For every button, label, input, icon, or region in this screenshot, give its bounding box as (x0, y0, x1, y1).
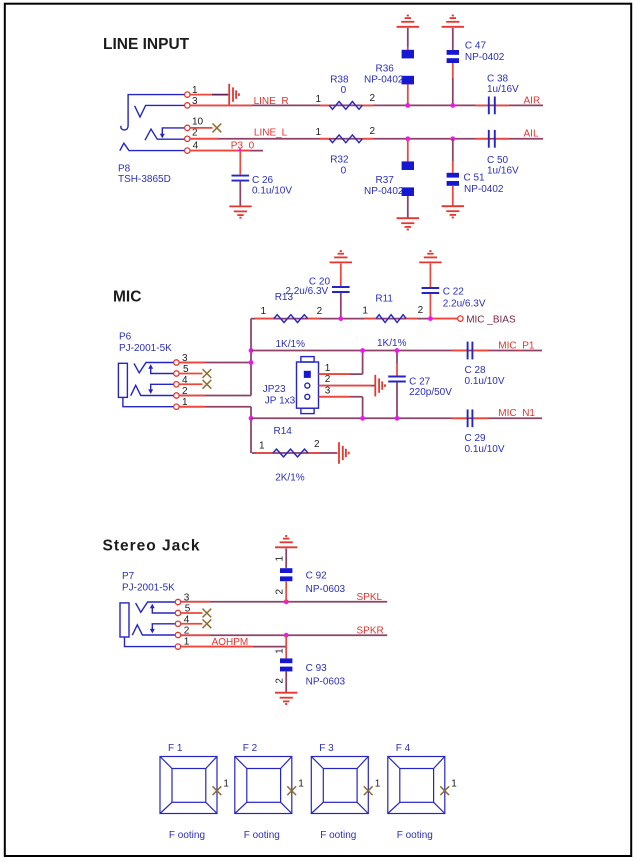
wire net MIC bias (251, 318, 458, 320)
pin number 10 of P8 (192, 117, 204, 128)
footing F2 symbol (235, 757, 292, 814)
svg-text:2: 2 (370, 126, 376, 137)
svg-text:4: 4 (193, 140, 199, 151)
refdes R32 (330, 154, 349, 165)
connector P8 pin 1 terminal (185, 92, 190, 97)
net label AIR (524, 96, 541, 107)
svg-text:2: 2 (418, 305, 424, 316)
value NP-0402 of C51 (464, 184, 504, 195)
pin number 2 of R38 (370, 93, 376, 104)
value NP-0603 of C93 (306, 676, 346, 687)
junction MIC_N1 at left vertical (249, 416, 254, 421)
svg-text:2: 2 (317, 306, 323, 317)
svg-text:JP23: JP23 (263, 384, 286, 395)
refdes C26 (252, 175, 274, 186)
refdes R14 (274, 426, 293, 437)
resistor R38 (329, 102, 362, 110)
junction R37/LINE_L (405, 136, 410, 141)
capacitor C47 (NP, filled bars) (447, 50, 459, 63)
value 2K/1% of R14 (275, 473, 305, 484)
svg-text:NP-0402: NP-0402 (465, 52, 505, 63)
value 0.1u/10V of C29 (465, 444, 505, 455)
terminal circle MIC_BIAS (458, 316, 463, 321)
wire net R14 line (252, 452, 338, 454)
connector P7 switch arm (pin 4) (150, 624, 176, 634)
power label P3_0 (231, 141, 255, 152)
pin number 1 of footing F2 (298, 778, 304, 789)
pin number 1 of footing F3 (375, 778, 381, 789)
wire LINE_L to C51 (452, 139, 454, 173)
wire ground to C20 (340, 264, 342, 287)
pin number 1 of R14 (259, 440, 265, 451)
refdes C20 (309, 276, 331, 287)
wire P6 pin5 stub (179, 373, 202, 375)
junction R36/LINE_R (405, 103, 410, 108)
value 0.1u/10V of C28 (465, 376, 505, 387)
resistor R13 (274, 315, 308, 323)
ground below C93 (275, 693, 297, 704)
junction C27/MIC_P1 (395, 348, 400, 353)
svg-text:1u/16V: 1u/16V (487, 84, 519, 95)
svg-text:C 29: C 29 (465, 433, 487, 444)
capacitor C28 (468, 342, 473, 360)
svg-text:P3_0: P3_0 (231, 141, 255, 152)
svg-text:R38: R38 (330, 75, 349, 86)
svg-text:R37: R37 (376, 175, 395, 186)
junction C47/LINE_R (450, 103, 455, 108)
connector JP23 body (297, 357, 319, 414)
svg-text:F 3: F 3 (319, 743, 334, 754)
svg-text:2K/1%: 2K/1% (275, 473, 305, 484)
no-connect X at P6 pin 5 (203, 369, 212, 378)
svg-text:1K/1%: 1K/1% (276, 339, 306, 350)
label Footing of F3 (320, 830, 356, 841)
junction JP23 pin1/MIC_P1 (360, 348, 365, 353)
connector P8 switch arm (pin 10) (160, 128, 185, 138)
svg-text:NP-0402: NP-0402 (364, 186, 404, 197)
svg-text:F ooting: F ooting (244, 830, 280, 841)
value PJ-2001-5K of P6 (119, 343, 172, 354)
connector JP23 pin1 square (304, 371, 311, 378)
connector P8 ring contact (pin 2) (145, 129, 185, 140)
svg-text:F ooting: F ooting (320, 830, 356, 841)
net label MIC_BIAS (466, 314, 516, 325)
svg-text:1K/1%: 1K/1% (377, 338, 407, 349)
ground above C20 (330, 251, 352, 262)
svg-text:1: 1 (316, 94, 322, 105)
wire net MIC_N1 (251, 417, 542, 419)
wire SPKR to C93 (285, 635, 287, 658)
svg-text:C 27: C 27 (409, 377, 431, 388)
svg-text:1: 1 (298, 778, 304, 789)
refdes C27 (409, 377, 431, 388)
pin number 3 of P7 (184, 593, 190, 604)
svg-text:F 4: F 4 (396, 743, 411, 754)
svg-text:P8: P8 (118, 163, 131, 174)
connector P7 jack body (120, 603, 129, 637)
label Footing of F1 (169, 830, 205, 841)
connector P6 pin 5 terminal (174, 371, 179, 376)
wire C22 to bias line (429, 294, 431, 319)
value 0 of R32 (341, 165, 347, 176)
value NP-0402 of R36 (364, 75, 404, 86)
net label MIC_P1 (498, 340, 535, 351)
refdes F2 (243, 743, 258, 754)
svg-text:C 93: C 93 (306, 663, 328, 674)
ground above C22 (419, 251, 441, 262)
net label AOHPM (212, 637, 249, 648)
pin number 5 of P7 (185, 604, 191, 615)
svg-text:C 38: C 38 (487, 74, 509, 85)
refdes JP23 (263, 384, 286, 395)
no-connect X at footing F2 pin 1 (287, 786, 296, 795)
pin number 2 of C93 (rotated) (274, 678, 285, 684)
resistor R32 (329, 135, 362, 143)
connector P8 pin 4 terminal (185, 148, 190, 153)
svg-text:C 50: C 50 (487, 155, 509, 166)
pin number 4 of P8 (193, 140, 199, 151)
resistor R14 (273, 449, 308, 457)
svg-text:2: 2 (274, 678, 285, 684)
wire net AOHPM (181, 646, 287, 648)
refdes C38 (487, 74, 509, 85)
pin number 1 of R32 (316, 127, 322, 138)
connector P7 pin 1 terminal (175, 644, 180, 649)
resistor R11 (376, 315, 406, 323)
svg-text:LINE INPUT: LINE INPUT (103, 36, 190, 53)
junction P6 pin3 at left vertical (249, 360, 254, 365)
svg-text:NP-0603: NP-0603 (306, 676, 346, 687)
wire ground to C22 (429, 264, 431, 288)
pin number 2 of JP23 (325, 374, 331, 385)
svg-text:R36: R36 (376, 63, 395, 74)
junction C27/MIC_N1 (395, 416, 400, 421)
ground below R37 (397, 218, 419, 229)
capacitor C27 (388, 377, 406, 382)
junction C22/bias (428, 316, 433, 321)
junction C92/SPKL (284, 599, 289, 604)
connector P7 switch arm (pin 5) (150, 604, 176, 613)
value 2.2u/6.3V of C22 (443, 298, 486, 309)
pin number 3 of JP23 (325, 385, 331, 396)
junction C51/LINE_L (450, 136, 455, 141)
svg-text:3: 3 (325, 385, 331, 396)
footing F1 symbol (160, 757, 217, 814)
svg-text:1u/16V: 1u/16V (487, 165, 519, 176)
connector P6 sleeve (pin 1) (123, 397, 174, 406)
refdes C93 (306, 663, 328, 674)
svg-text:F ooting: F ooting (397, 830, 433, 841)
svg-text:Stereo Jack: Stereo Jack (103, 538, 201, 555)
svg-text:NP-0402: NP-0402 (464, 184, 504, 195)
svg-text:R32: R32 (330, 154, 349, 165)
svg-text:2: 2 (192, 128, 198, 139)
wire net SPKL (181, 601, 388, 603)
refdes P6 (119, 332, 132, 343)
ground below C51 (442, 206, 464, 217)
svg-text:AOHPM: AOHPM (212, 637, 249, 648)
section title MIC (113, 289, 141, 306)
value JP 1x3 (265, 395, 296, 406)
wire P7 pin5 stub (181, 612, 203, 614)
connector P8 pin 2 terminal (185, 136, 190, 141)
refdes C29 (465, 433, 487, 444)
refdes C22 (443, 286, 465, 297)
wire R36 to LINE_R (407, 84, 409, 105)
refdes R36 (376, 63, 395, 74)
connector P8 tip contact (pin 3) (135, 105, 185, 117)
junction C93/SPKR (284, 633, 289, 638)
net label MIC_N1 (498, 408, 535, 419)
svg-text:MIC_N1: MIC_N1 (498, 408, 535, 419)
svg-text:F 2: F 2 (243, 743, 258, 754)
svg-text:2: 2 (274, 589, 285, 595)
connector P6 pin 3 terminal (174, 360, 179, 365)
svg-text:1: 1 (362, 306, 368, 317)
no-connect X at P7 pin 5 (203, 609, 212, 618)
wire MIC_P1 to C27 (396, 351, 398, 376)
refdes C28 (465, 365, 487, 376)
svg-text:0.1u/10V: 0.1u/10V (465, 376, 505, 387)
capacitor C93 (NP, filled bars) (280, 658, 292, 671)
value NP-0402 of R37 (364, 186, 404, 197)
wire P8 pin4 / net P3_0 (190, 150, 263, 152)
pin number 2 of R14 (314, 439, 320, 450)
ground above C92 (275, 536, 297, 547)
pin number 1 of P8 (192, 85, 198, 96)
ground at P8 pin 1 (sideways) (229, 84, 239, 106)
wire C51 to ground (452, 186, 454, 206)
pin number 1 of footing F1 (223, 778, 229, 789)
wire JP23 pin1 to MIC_P1 (319, 351, 363, 375)
connector P7 pin 3 terminal (175, 599, 180, 604)
connector P7 sleeve (pin 1) (125, 637, 176, 647)
wire C92 to SPKL (285, 581, 287, 601)
svg-text:PJ-2001-5K: PJ-2001-5K (122, 583, 175, 594)
connector P7 pin 2 terminal (175, 632, 180, 637)
refdes C92 (306, 571, 328, 582)
pin number 2 of P6 (182, 386, 188, 397)
connector P6 tip contact (pin 3) (134, 363, 174, 373)
svg-text:1: 1 (451, 778, 457, 789)
svg-text:C 22: C 22 (443, 286, 465, 297)
pin number 1 of C92 (rotated) (274, 556, 285, 562)
value TSH-3865D (118, 174, 171, 185)
junction MIC_P1 at left vertical (249, 348, 254, 353)
no-connect X at footing F4 pin 1 (440, 786, 449, 795)
pin number 4 of P6 (182, 375, 188, 386)
junction C20/bias (338, 316, 343, 321)
pin number 5 of P6 (183, 364, 189, 375)
ground above R36 (397, 16, 419, 27)
power port P3_0 arrow (238, 148, 243, 152)
pin number 1 of R38 (316, 94, 322, 105)
connector P8 pin 3 terminal (185, 103, 190, 108)
connector P6 pin 2 terminal (174, 393, 179, 398)
wire C20 to bias line (340, 293, 342, 319)
value 1K/1% of R13 (276, 339, 306, 350)
pin number 2 of R13 (317, 306, 323, 317)
svg-text:F ooting: F ooting (169, 830, 205, 841)
value 1u/16V of C50 (487, 165, 519, 176)
wire P8 pin10 stub (190, 127, 213, 129)
value 220p/50V of C27 (409, 387, 452, 398)
svg-text:0.1u/10V: 0.1u/10V (465, 444, 505, 455)
pin number 2 of R11 (418, 305, 424, 316)
svg-text:0: 0 (341, 85, 347, 96)
svg-text:MIC: MIC (113, 289, 141, 306)
wire P6 pin1 to node (179, 406, 251, 408)
svg-text:LINE_R: LINE_R (254, 96, 289, 107)
capacitor C29 (468, 409, 473, 427)
svg-text:C 26: C 26 (252, 175, 274, 186)
wire net LINE_L (190, 138, 543, 140)
svg-text:TSH-3865D: TSH-3865D (118, 174, 171, 185)
connector P6 pin 4 terminal (174, 382, 179, 387)
footing F4 symbol (388, 757, 445, 814)
connector P7 ring contact (pin 2) (132, 625, 175, 635)
value PJ-2001-5K of P7 (122, 583, 175, 594)
wire P6 pin4 stub (179, 383, 202, 385)
svg-text:C 28: C 28 (465, 365, 487, 376)
ground above C47 (442, 16, 464, 27)
wire JP23 pin2 to ground (319, 385, 375, 387)
ground below C26 (229, 206, 251, 217)
value 0 of R38 (341, 85, 347, 96)
svg-text:AIR: AIR (524, 96, 541, 107)
connector JP23 pin3 circle (305, 394, 310, 399)
wire net SPKR (181, 634, 388, 636)
svg-text:R14: R14 (274, 426, 293, 437)
net label SPKL (357, 592, 383, 603)
capacitor C50 (489, 130, 495, 148)
svg-text:MIC_P1: MIC_P1 (498, 340, 535, 351)
resistor R36 (NP, filled pads) (402, 50, 414, 85)
capacitor C22 (422, 288, 440, 293)
pin number 1 of P7 (184, 637, 190, 648)
net label SPKR (357, 625, 384, 636)
svg-text:LINE_L: LINE_L (254, 128, 288, 139)
net label LINE_R (254, 96, 289, 107)
value NP-0603 of C92 (306, 584, 346, 595)
wire R37 to ground (407, 196, 409, 218)
svg-text:C 92: C 92 (306, 571, 328, 582)
svg-text:NP-0402: NP-0402 (364, 75, 404, 86)
connector P7 tip contact (pin 3) (136, 602, 176, 612)
value 2.2u/6.3V of C20 (285, 286, 328, 297)
svg-text:1: 1 (274, 556, 285, 562)
pin number 2 of P8 (192, 128, 198, 139)
refdes C47 (465, 41, 487, 52)
pin number 4 of P7 (184, 614, 190, 625)
section title Stereo Jack (103, 538, 201, 555)
refdes F1 (168, 743, 183, 754)
wire LINE_L to R37 (407, 139, 409, 162)
connector P8 pin 10 terminal (185, 125, 190, 130)
refdes R37 (376, 175, 395, 186)
resistor R37 (NP, filled pads) (402, 161, 414, 196)
refdes C51 (464, 172, 486, 183)
svg-text:MIC _BIAS: MIC _BIAS (466, 314, 516, 325)
net label AIL (524, 128, 539, 139)
wire left vertical (R13/pin3/pin2) (250, 319, 252, 396)
value 1u/16V of C38 (487, 84, 519, 95)
net label LINE_L (254, 128, 288, 139)
ground at R14 (sideways) (339, 442, 349, 464)
wire C27 to MIC_N1 (396, 383, 398, 419)
wire net LINE_R (190, 104, 543, 106)
connector JP23 pin2 circle (305, 383, 310, 388)
refdes R11 (375, 293, 393, 304)
wire C93 to ground (285, 671, 287, 692)
svg-text:SPKL: SPKL (357, 592, 383, 603)
svg-text:10: 10 (192, 117, 204, 128)
wire P6 pin2 to node (179, 395, 251, 397)
refdes R13 (275, 292, 294, 303)
no-connect X at footing F1 pin 1 (213, 786, 222, 795)
wire P6 pin3 to node (179, 362, 251, 364)
pin number 3 of P8 (192, 96, 198, 107)
wire P8 pin1 to ground (190, 94, 228, 96)
svg-text:1: 1 (316, 127, 322, 138)
svg-text:220p/50V: 220p/50V (409, 387, 452, 398)
svg-text:F 1: F 1 (168, 743, 183, 754)
svg-text:SPKR: SPKR (357, 625, 384, 636)
pin number 3 of P6 (182, 353, 188, 364)
capacitor C38 (489, 97, 495, 115)
wire C26 to ground (239, 182, 241, 206)
pin number 1 of JP23 (325, 363, 331, 374)
svg-text:2: 2 (370, 93, 376, 104)
refdes C50 (487, 155, 509, 166)
refdes P8 (118, 163, 131, 174)
svg-text:0.1u/10V: 0.1u/10V (252, 185, 292, 196)
label Footing of F2 (244, 830, 280, 841)
footing F3 symbol (311, 757, 368, 814)
svg-text:PJ-2001-5K: PJ-2001-5K (119, 343, 172, 354)
no-connect X at P6 pin 4 (203, 380, 212, 389)
wire ground to R36 (407, 28, 409, 50)
connector P7 pin 5 terminal (175, 610, 180, 615)
pin number 1 of R11 (362, 306, 368, 317)
svg-text:AIL: AIL (524, 128, 539, 139)
svg-text:P7: P7 (122, 571, 135, 582)
svg-text:1: 1 (261, 306, 267, 317)
svg-text:0: 0 (341, 165, 347, 176)
pin number 2 of R32 (370, 126, 376, 137)
ground at JP23 pin 2 (sideways) (375, 375, 385, 397)
refdes F4 (396, 743, 411, 754)
capacitor C92 (NP, filled bars) (280, 568, 292, 581)
pin number 1 of R13 (261, 306, 267, 317)
refdes F3 (319, 743, 334, 754)
wire JP23 pin3 to MIC_N1 (319, 397, 363, 419)
svg-text:2: 2 (314, 439, 320, 450)
wire P3_0 to C26 (239, 151, 241, 175)
no-connect X at footing F3 pin 1 (364, 786, 373, 795)
pin number 2 of P7 (184, 626, 190, 637)
pin number 1 of footing F4 (451, 778, 457, 789)
value 1K/1% of R11 (377, 338, 407, 349)
connector P6 switch arm (pin 4) (148, 384, 174, 394)
svg-text:2.2u/6.3V: 2.2u/6.3V (443, 298, 486, 309)
wire C47 to LINE_R (452, 63, 454, 105)
capacitor C20 (332, 287, 350, 292)
connector P6 ring contact (pin 2) (131, 385, 174, 395)
svg-text:1: 1 (325, 363, 331, 374)
svg-text:1: 1 (223, 778, 229, 789)
wire ground to C47 (452, 28, 454, 50)
